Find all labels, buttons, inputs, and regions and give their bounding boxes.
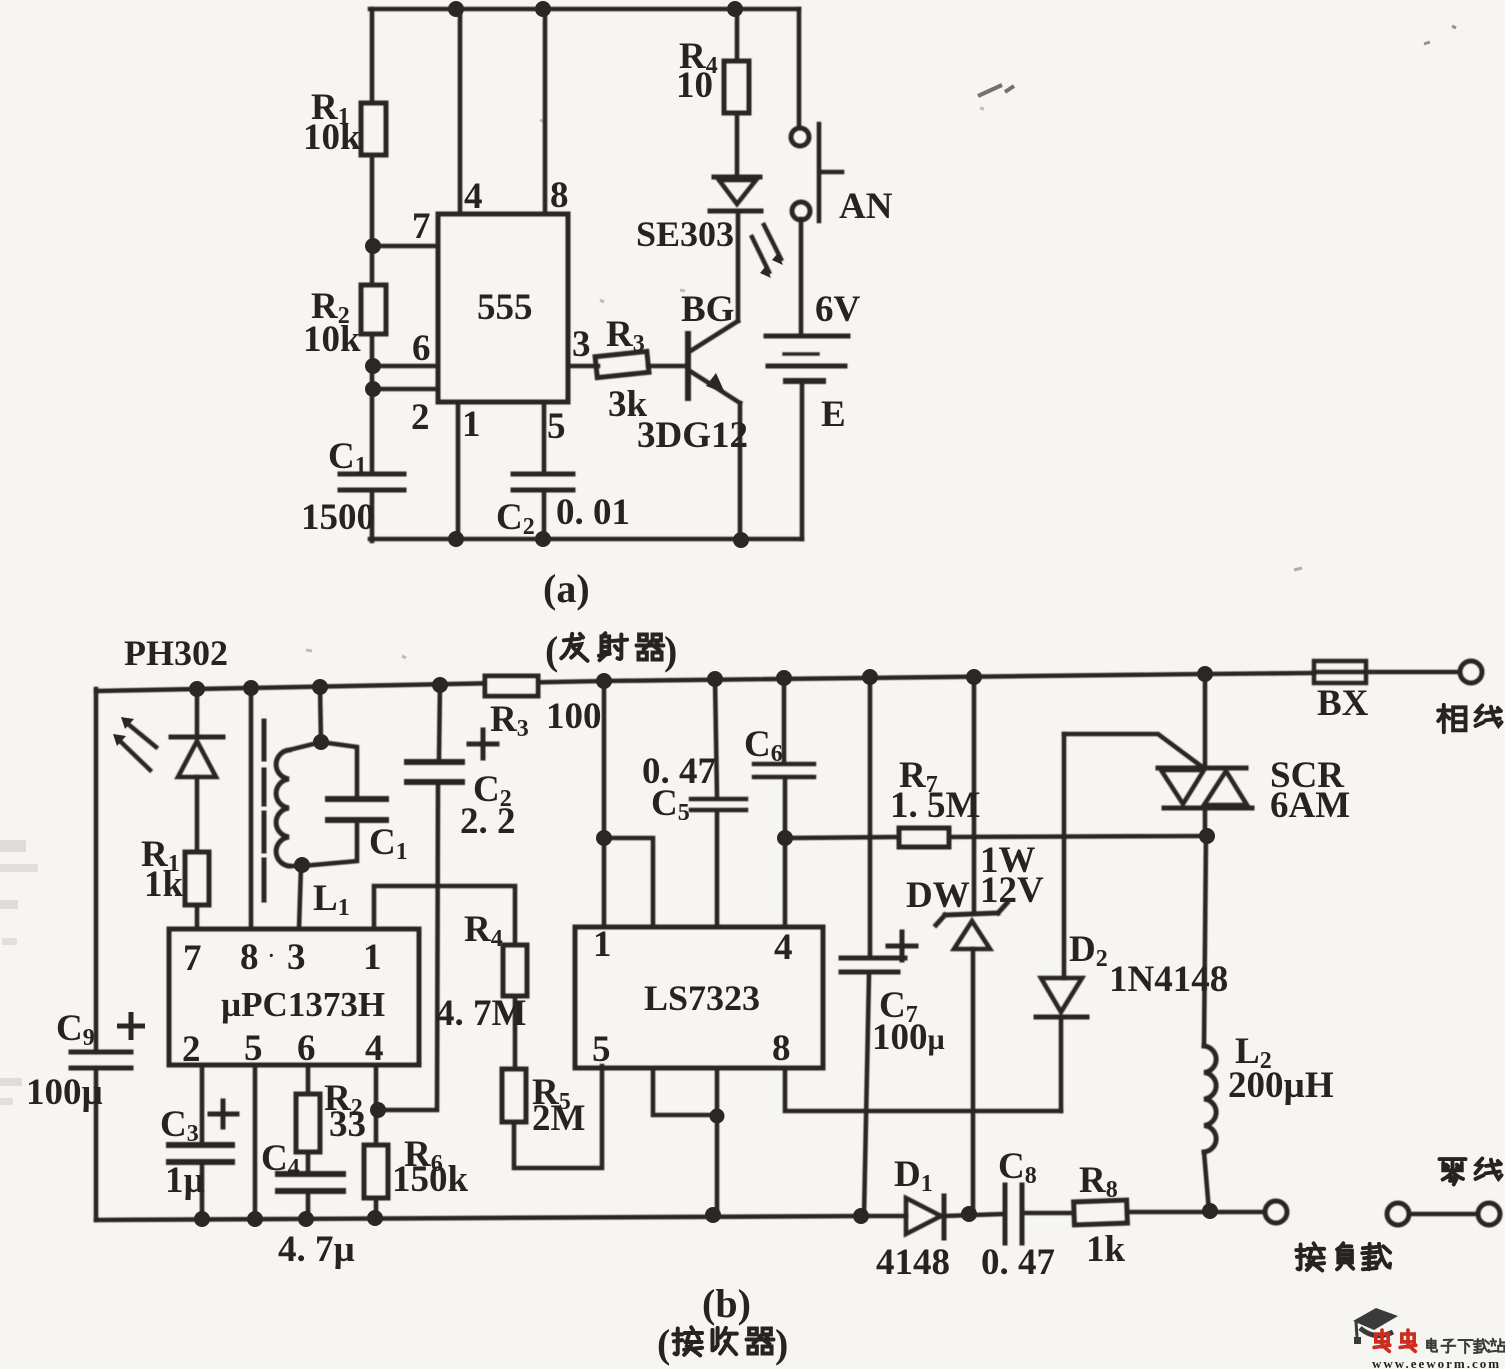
wire PH302 to R1 xyxy=(195,777,200,852)
svg-text:200µH: 200µH xyxy=(1228,1065,1334,1106)
capacitor C2 xyxy=(513,474,573,490)
node dots tank xyxy=(313,734,329,750)
svg-text:1k: 1k xyxy=(1086,1229,1126,1270)
svg-text:BG: BG xyxy=(681,289,734,330)
svg-text:10: 10 xyxy=(676,65,713,106)
resistor R1 xyxy=(361,103,386,155)
wire pin2 column xyxy=(200,1065,205,1219)
svg-text:3DG12: 3DG12 xyxy=(637,415,748,456)
plus sign C7 xyxy=(888,932,916,960)
svg-text:4: 4 xyxy=(774,927,793,968)
svg-text:µPC1373H: µPC1373H xyxy=(221,985,385,1024)
wire R2 to C4 xyxy=(306,1152,311,1174)
battery 6V xyxy=(766,334,848,339)
wire L1 top feed xyxy=(320,687,321,742)
svg-text:): ) xyxy=(664,628,677,673)
wire R4 to R5 xyxy=(513,996,518,1069)
svg-text:7: 7 xyxy=(412,206,431,247)
svg-text:8: 8 xyxy=(772,1028,791,1069)
terminal 零线 pair xyxy=(1387,1203,1409,1225)
inductor L1 xyxy=(289,742,321,750)
resistor R1b xyxy=(185,852,209,905)
triac SCR xyxy=(1203,674,1208,768)
wire pin8 LS line xyxy=(785,1068,1061,1111)
svg-text:555: 555 xyxy=(477,287,533,328)
wire bottom rail (b) xyxy=(96,1216,864,1220)
wire LS bottom pin B xyxy=(715,1068,720,1215)
svg-text:1. 5M: 1. 5M xyxy=(890,785,980,826)
node dot LS bottom xyxy=(710,1109,725,1124)
wire between terminals xyxy=(1409,1212,1478,1217)
wire left column top xyxy=(370,9,375,103)
wire pin8 column xyxy=(249,688,254,929)
svg-text:6: 6 xyxy=(297,1028,316,1069)
wire pin8 xyxy=(543,8,548,214)
node dot C6/R7 xyxy=(777,830,793,846)
wire bottom rail (a) xyxy=(370,537,802,542)
wire pin2 xyxy=(373,387,438,392)
plus sign C3 xyxy=(210,1101,237,1127)
wire left column xyxy=(94,689,99,1052)
svg-text:2: 2 xyxy=(182,1029,201,1070)
logo 电子下载站 xyxy=(1427,1339,1505,1354)
node dot pin4/C2 xyxy=(370,1102,386,1118)
wire L2 to out xyxy=(1204,1152,1209,1211)
svg-text:(a): (a) xyxy=(543,566,590,611)
resistor R2 xyxy=(361,285,386,334)
label 接负载 to load xyxy=(1296,1243,1324,1270)
op-amp U1 555 box xyxy=(438,214,568,402)
wire pin1 xyxy=(456,402,461,539)
svg-text:3: 3 xyxy=(287,937,306,978)
capacitor C1 xyxy=(340,474,404,490)
svg-text:·: · xyxy=(268,945,275,967)
resistor R4b xyxy=(503,945,527,996)
wire AN branch xyxy=(797,9,802,128)
zener DW xyxy=(945,913,998,915)
wire R2 to C1 xyxy=(370,334,375,474)
wire pin6 column xyxy=(306,1065,311,1094)
wire collector xyxy=(689,211,738,352)
capacitor C4 xyxy=(278,1174,343,1191)
svg-text:12V: 12V xyxy=(980,870,1044,911)
wire SCR gate xyxy=(1064,734,1201,766)
logo 虫虫 red xyxy=(1374,1330,1416,1351)
diode D2 xyxy=(1041,978,1082,1012)
wire C1 to bottom rail xyxy=(370,490,375,541)
resistor R3b on rail xyxy=(485,676,538,696)
wire C2 to bottom rail xyxy=(542,490,547,539)
wire LS bottom pin A xyxy=(653,1068,717,1115)
svg-text:6AM: 6AM xyxy=(1270,785,1350,826)
svg-text:3: 3 xyxy=(572,324,591,365)
wire pin4 xyxy=(458,9,463,214)
resistor R3 xyxy=(595,351,649,377)
wire C6 column xyxy=(784,678,785,927)
svg-text:www.eeworm.com: www.eeworm.com xyxy=(1372,1356,1501,1369)
arrowhead SE303 b xyxy=(760,266,771,278)
svg-text:5: 5 xyxy=(244,1028,263,1069)
svg-text:150k: 150k xyxy=(392,1159,469,1200)
svg-text:E: E xyxy=(821,394,846,435)
wire R6 to rail xyxy=(374,1198,379,1218)
transistor Q BG base bar xyxy=(685,334,691,398)
svg-text:BX: BX xyxy=(1317,683,1369,724)
wire pin3 xyxy=(568,364,598,369)
plus sign C2b xyxy=(469,730,497,758)
svg-text:0. 01: 0. 01 xyxy=(556,492,630,533)
node dot LS pin1 branch xyxy=(596,830,612,846)
logo cap xyxy=(1353,1308,1398,1330)
wire C5 column xyxy=(715,679,717,927)
svg-text:4: 4 xyxy=(464,176,483,217)
svg-text:2M: 2M xyxy=(532,1098,585,1139)
svg-text:SE303: SE303 xyxy=(636,214,734,254)
svg-text:1k: 1k xyxy=(144,864,184,905)
svg-text:(b): (b) xyxy=(702,1281,751,1326)
svg-text:10k: 10k xyxy=(303,319,361,360)
svg-text:1: 1 xyxy=(363,937,382,978)
node dots top rail b xyxy=(189,681,205,697)
resistor R7 xyxy=(899,828,949,847)
svg-text:1N4148: 1N4148 xyxy=(1109,959,1228,1000)
wire pin1 to R4 xyxy=(374,886,515,945)
svg-text:PH302: PH302 xyxy=(124,633,228,673)
svg-text:4. 7M: 4. 7M xyxy=(436,993,526,1034)
svg-text:1µ: 1µ xyxy=(165,1160,205,1201)
capacitor C1b xyxy=(328,799,386,820)
svg-text:4148: 4148 xyxy=(876,1242,950,1283)
svg-text:7: 7 xyxy=(183,938,202,979)
capacitor C6 xyxy=(754,764,814,777)
arrowhead emitter BG xyxy=(706,373,725,393)
svg-text:100µ: 100µ xyxy=(872,1017,945,1058)
wire SCR to L2 xyxy=(1204,836,1206,1046)
svg-text:6V: 6V xyxy=(815,289,861,330)
label 相线 phase line xyxy=(1438,705,1465,732)
svg-text:1500: 1500 xyxy=(301,497,375,538)
wire pin6 xyxy=(372,364,438,369)
svg-text:0. 47: 0. 47 xyxy=(981,1242,1055,1283)
diode D1 xyxy=(906,1198,941,1234)
wire pin7 xyxy=(372,244,438,249)
arrowhead PH302 a xyxy=(121,717,134,729)
capacitor C8 xyxy=(1005,1185,1022,1243)
fuse BX xyxy=(1314,670,1366,675)
wire C8 to R8 xyxy=(1024,1211,1074,1216)
wire R1 to pin7 xyxy=(195,905,200,929)
terminal load xyxy=(1265,1201,1287,1223)
svg-text:): ) xyxy=(775,1321,788,1366)
light arrows PH302 xyxy=(121,724,156,770)
resistor R6 xyxy=(364,1145,388,1198)
diode SE303 xyxy=(714,175,760,180)
svg-text:10k: 10k xyxy=(303,117,361,158)
svg-text:DW: DW xyxy=(906,875,970,916)
svg-text:LS7323: LS7323 xyxy=(644,978,760,1018)
svg-text:6: 6 xyxy=(412,328,431,369)
IC U2 uPC1373H box xyxy=(169,929,419,1065)
IC U3 LS7323 box xyxy=(575,927,823,1068)
svg-text:1: 1 xyxy=(462,404,481,445)
wire C7 column xyxy=(864,677,870,1216)
svg-text:4. 7µ: 4. 7µ xyxy=(278,1229,355,1270)
svg-text:8: 8 xyxy=(240,937,259,978)
svg-text:4: 4 xyxy=(365,1028,384,1069)
wire C2 column xyxy=(378,685,440,1110)
wire R5 to pin5 LS xyxy=(514,1066,602,1168)
wire top rail (a) xyxy=(370,7,799,12)
wire R4 top xyxy=(735,9,740,61)
wire pin4 column xyxy=(374,1065,379,1145)
wire D1 to C8 xyxy=(944,1214,1003,1216)
wire switch to battery xyxy=(799,219,804,336)
capacitor C1b branch xyxy=(302,742,357,866)
wire LS pin1 column xyxy=(602,681,607,927)
wire tank to pin3 xyxy=(299,866,301,929)
wire gate to D2 xyxy=(1062,734,1067,978)
node dot SCR/R7 xyxy=(1199,828,1215,844)
wire D2 to pin8 line xyxy=(1059,1017,1064,1111)
resistor R4 xyxy=(724,61,749,113)
resistor R2b xyxy=(296,1094,320,1152)
svg-text:(: ( xyxy=(657,1321,670,1366)
arrowhead PH302 b xyxy=(113,734,126,746)
svg-text:100µ: 100µ xyxy=(26,1072,103,1113)
wire D1 anode xyxy=(861,1214,906,1219)
switch AN xyxy=(791,128,809,146)
inductor L2 xyxy=(1204,1046,1216,1152)
arrowhead SE303 a xyxy=(772,253,783,265)
label 零线 neutral line xyxy=(1439,1159,1465,1184)
resistor R5 xyxy=(502,1069,526,1122)
wire R7 line xyxy=(785,836,1206,838)
svg-text:100: 100 xyxy=(546,696,602,737)
svg-text:2: 2 xyxy=(411,397,430,438)
dashed core line xyxy=(262,721,267,900)
wire DW column xyxy=(973,677,974,1213)
wire battery to bottom rail xyxy=(800,381,805,539)
capacitor C7 xyxy=(841,958,905,972)
wire top rail (b) xyxy=(96,672,1460,691)
wire C9 to bottom rail xyxy=(94,1068,99,1220)
svg-text:1: 1 xyxy=(593,924,612,965)
svg-text:(: ( xyxy=(545,628,558,673)
wire PH302 top xyxy=(195,689,200,736)
wire R3 to base xyxy=(648,364,686,369)
light arrows SE303 xyxy=(752,225,781,272)
node dots bottom rail xyxy=(194,1211,210,1227)
svg-text:8: 8 xyxy=(550,175,569,216)
wire R1 to node7 xyxy=(370,155,375,285)
svg-text:5: 5 xyxy=(547,406,566,447)
terminal 相线 xyxy=(1460,661,1482,683)
wire SE303 anode xyxy=(735,113,740,176)
capacitor C9 xyxy=(71,1052,131,1068)
wire R8 to terminal xyxy=(1127,1210,1264,1215)
svg-text:AN: AN xyxy=(839,186,893,227)
wire LS pin2 branch xyxy=(604,838,653,927)
wire pin5 xyxy=(542,402,547,474)
capacitor C5 xyxy=(691,799,746,810)
wire emitter xyxy=(690,371,740,540)
svg-text:2. 2: 2. 2 xyxy=(460,801,516,842)
wire pin5 column xyxy=(253,1065,258,1219)
photodiode PH302 xyxy=(171,735,223,740)
capacitor C2b xyxy=(407,762,462,782)
plus C9 xyxy=(117,1012,145,1040)
svg-text:33: 33 xyxy=(329,1104,366,1145)
svg-text:5: 5 xyxy=(592,1029,611,1070)
wire C4 to rail xyxy=(306,1191,311,1219)
capacitor C3 xyxy=(169,1145,232,1162)
resistor R8 xyxy=(1074,1200,1128,1225)
node dots circuit a xyxy=(448,1,464,17)
